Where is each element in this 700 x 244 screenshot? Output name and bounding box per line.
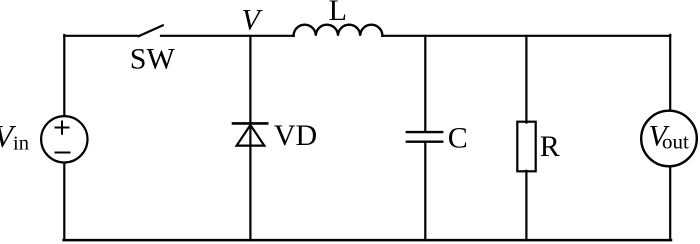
V_in minus sign: [56, 152, 70, 154]
V_in plus sign: [56, 122, 69, 134]
wire top middle (switch to inductor): [161, 35, 294, 37]
wire top-right horizontal: [382, 35, 670, 37]
svg-text:V: V: [242, 3, 264, 36]
svg-text:in: in: [13, 132, 29, 154]
diode VD cathode bar: [233, 122, 267, 125]
capacitor C bottom plate: [407, 140, 442, 142]
source V_out circle: [641, 111, 697, 167]
wire resistor branch lower: [525, 171, 527, 240]
svg-text:L: L: [329, 0, 347, 27]
switch SW blade: [139, 25, 164, 36]
inductor L: [294, 25, 383, 36]
wire bottom horizontal: [64, 239, 671, 242]
wire left vertical upper: [63, 35, 65, 116]
svg-text:out: out: [662, 130, 689, 154]
wire capacitor branch upper: [424, 36, 426, 131]
wire right vertical upper: [669, 35, 671, 111]
capacitor C top plate: [407, 131, 442, 133]
svg-text:C: C: [448, 121, 468, 154]
svg-text:R: R: [540, 130, 560, 163]
diode VD triangle: [237, 125, 265, 146]
svg-text:VD: VD: [274, 119, 317, 152]
wire resistor branch upper: [525, 36, 527, 123]
wire capacitor branch lower: [424, 143, 426, 241]
source V_in circle: [41, 116, 87, 162]
wire top-left horizontal: [64, 35, 139, 37]
wire right vertical lower: [669, 167, 671, 241]
svg-text:SW: SW: [130, 43, 176, 76]
resistor R body: [517, 122, 535, 172]
wire diode branch vertical: [249, 36, 251, 240]
wire left vertical lower: [63, 163, 65, 240]
